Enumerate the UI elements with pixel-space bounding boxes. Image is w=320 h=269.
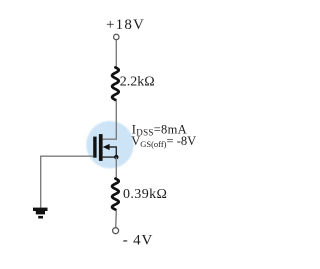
svg-text:+18V: +18V	[106, 17, 145, 33]
wire: RD to drain (with corner)	[103, 101, 117, 140]
resistor RS	[112, 179, 119, 210]
substrate arrow line	[106, 147, 116, 157]
wire: +18V terminal to RD	[115, 40, 117, 67]
wire: source to RS	[115, 157, 117, 178]
gate bar	[93, 137, 96, 158]
transistor Q1 n-channel depletion MOSFET	[93, 134, 118, 161]
-4V supply terminal	[113, 228, 119, 234]
junction dot	[114, 155, 118, 159]
resistor RD	[112, 67, 119, 100]
wire: RS to -4V terminal	[115, 211, 118, 228]
svg-text:- 4V: - 4V	[123, 233, 153, 249]
+18V supply terminal	[114, 34, 119, 39]
channel bar	[99, 134, 103, 161]
substrate arrowhead	[103, 144, 110, 150]
svg-text:0.39kΩ: 0.39kΩ	[123, 187, 167, 202]
ground	[33, 208, 48, 219]
wire: gate to ground	[41, 156, 93, 207]
svg-text:2.2kΩ: 2.2kΩ	[120, 75, 155, 90]
source stub	[103, 156, 117, 158]
